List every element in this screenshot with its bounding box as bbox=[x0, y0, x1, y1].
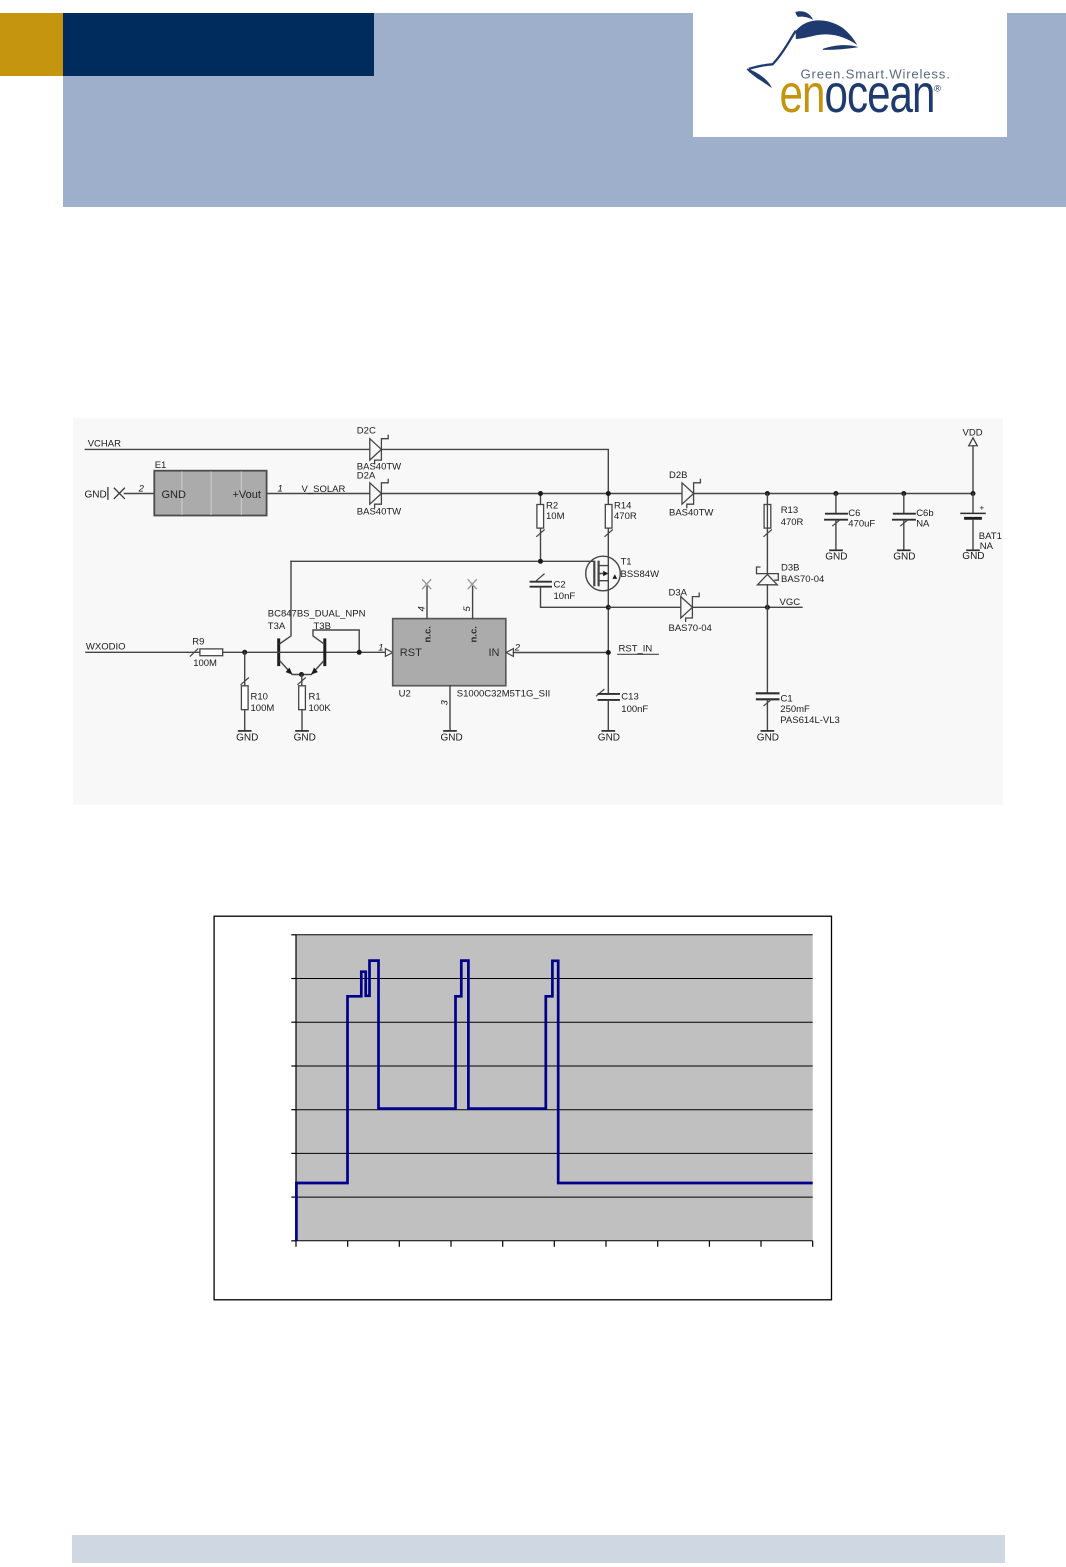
svg-text:GND: GND bbox=[85, 490, 107, 501]
gridlines bbox=[296, 935, 813, 1241]
node RST_IN junction bbox=[606, 605, 611, 610]
svg-text:BAS40TW: BAS40TW bbox=[357, 507, 401, 518]
svg-text:E1: E1 bbox=[155, 460, 167, 471]
svg-text:1: 1 bbox=[378, 642, 383, 653]
wire V_SOLAR rail bbox=[381, 493, 682, 495]
node emitter junction bbox=[299, 672, 304, 677]
svg-text:D3A: D3A bbox=[669, 588, 688, 599]
ground below C13 bbox=[598, 731, 620, 744]
pin 4 no-connect bbox=[416, 580, 430, 619]
svg-text:GND: GND bbox=[294, 732, 316, 743]
svg-text:WXODIO: WXODIO bbox=[86, 642, 126, 653]
svg-text:4: 4 bbox=[416, 606, 427, 611]
wire base between transistors bbox=[278, 651, 386, 653]
header navy block bbox=[63, 13, 374, 76]
svg-text:C13: C13 bbox=[621, 692, 638, 703]
svg-text:n.c.: n.c. bbox=[468, 626, 479, 642]
svg-text:D2B: D2B bbox=[669, 470, 687, 481]
svg-text:BAS70-04: BAS70-04 bbox=[669, 623, 712, 634]
svg-text:+Vout: +Vout bbox=[233, 489, 261, 501]
svg-text:BAS40TW: BAS40TW bbox=[669, 507, 713, 518]
node VDD bbox=[963, 428, 983, 494]
svg-text:1: 1 bbox=[278, 484, 283, 495]
svg-text:GND: GND bbox=[962, 551, 984, 562]
plot area bbox=[296, 935, 813, 1241]
wire to D3A bbox=[608, 606, 681, 608]
svg-text:D3B: D3B bbox=[781, 562, 799, 573]
svg-text:C2: C2 bbox=[554, 580, 566, 591]
resistor R14 bbox=[605, 494, 637, 694]
CHART bbox=[213, 915, 833, 1301]
enocean logo bbox=[693, 0, 1007, 137]
node T3B collector junction bbox=[357, 650, 362, 655]
svg-text:BAS70-04: BAS70-04 bbox=[781, 574, 824, 585]
svg-text:100M: 100M bbox=[193, 658, 217, 669]
resistor R10 bbox=[241, 652, 274, 730]
battery BAT1 bbox=[961, 494, 1002, 553]
svg-text:IN: IN bbox=[489, 647, 500, 659]
svg-text:2: 2 bbox=[138, 484, 145, 495]
svg-text:GND: GND bbox=[441, 732, 463, 743]
svg-text:GND: GND bbox=[825, 552, 847, 563]
svg-text:D2A: D2A bbox=[357, 471, 376, 482]
svg-text:10M: 10M bbox=[546, 511, 565, 522]
svg-text:R1: R1 bbox=[309, 692, 321, 703]
chart frame bbox=[214, 916, 831, 1300]
svg-text:100M: 100M bbox=[251, 703, 275, 714]
svg-text:T1: T1 bbox=[621, 557, 632, 568]
svg-text:3: 3 bbox=[439, 700, 450, 706]
svg-text:n.c.: n.c. bbox=[423, 626, 434, 642]
svg-text:RST_IN: RST_IN bbox=[619, 644, 653, 655]
capacitor C2 bbox=[531, 574, 609, 607]
svg-text:BSS84W: BSS84W bbox=[621, 569, 660, 580]
capacitor C6b bbox=[893, 494, 934, 550]
svg-text:®: ® bbox=[934, 84, 941, 95]
svg-text:R10: R10 bbox=[251, 692, 268, 703]
header gold block bbox=[0, 13, 63, 76]
diode D2B bbox=[669, 470, 713, 519]
node WXODIO bbox=[86, 642, 200, 653]
capacitor C13 bbox=[597, 689, 649, 730]
transistor T3B bbox=[302, 621, 360, 675]
x axis ticks bbox=[296, 1241, 813, 1247]
svg-text:470R: 470R bbox=[781, 517, 804, 528]
pin 1 arrow into U2 bbox=[378, 642, 392, 656]
pin 3 to ground bbox=[439, 686, 450, 731]
node VGC bbox=[692, 597, 802, 610]
junction dots on V_SOLAR rail bbox=[538, 491, 976, 496]
svg-text:100K: 100K bbox=[309, 703, 332, 714]
IC U2 bbox=[393, 619, 551, 700]
dolphin pectoral fin swoosh bbox=[823, 45, 858, 50]
svg-text:BAT1: BAT1 bbox=[979, 531, 1002, 542]
SCHEMATIC bbox=[73, 418, 1003, 805]
resistor R1 bbox=[298, 675, 332, 731]
ground below C6b bbox=[893, 550, 915, 562]
resistor R9 bbox=[190, 636, 277, 669]
node V_SOLAR bbox=[267, 484, 370, 495]
capacitor C1 bbox=[757, 607, 840, 730]
footer band bbox=[72, 1535, 1005, 1563]
dolphin head and neck line bbox=[749, 31, 796, 69]
svg-text:GND: GND bbox=[757, 732, 779, 743]
capacitor C6 bbox=[825, 494, 875, 550]
svg-text:GND: GND bbox=[893, 552, 915, 563]
logo white box bbox=[693, 8, 1007, 137]
svg-text:D2C: D2C bbox=[357, 425, 376, 436]
diode D2A bbox=[357, 471, 401, 518]
pin 2 arrow and wire bbox=[506, 642, 608, 656]
svg-text:T3A: T3A bbox=[268, 621, 286, 632]
resistor R13 bbox=[764, 494, 804, 574]
svg-text:GND: GND bbox=[236, 732, 258, 743]
svg-text:S1000C32M5T1G_SII: S1000C32M5T1G_SII bbox=[457, 689, 550, 700]
svg-text:GND: GND bbox=[162, 489, 187, 501]
wire bbox=[124, 493, 154, 495]
ground below C1 bbox=[757, 731, 779, 744]
svg-text:GND: GND bbox=[598, 732, 620, 743]
diode D3B bbox=[757, 562, 825, 607]
transistor T3A bbox=[268, 561, 366, 674]
header light blue band bbox=[63, 13, 1066, 207]
logo wordmark bbox=[780, 64, 935, 124]
svg-text:RST: RST bbox=[400, 647, 422, 659]
node base junction bbox=[242, 650, 247, 655]
svg-text:VDD: VDD bbox=[963, 428, 983, 439]
node GND flag at E1 input bbox=[85, 484, 155, 501]
svg-text:250mF: 250mF bbox=[780, 704, 810, 715]
diode D2C bbox=[357, 425, 401, 472]
svg-text:VCHAR: VCHAR bbox=[88, 439, 121, 450]
svg-text:R9: R9 bbox=[192, 636, 204, 647]
ground below BAT1 bbox=[962, 550, 984, 562]
ground below R10 bbox=[236, 731, 258, 744]
svg-text:5: 5 bbox=[462, 606, 473, 612]
svg-text:C6: C6 bbox=[848, 508, 860, 519]
svg-text:enocean: enocean bbox=[780, 64, 935, 124]
wire bbox=[85, 449, 608, 493]
svg-text:VGC: VGC bbox=[780, 597, 801, 608]
y axis with ticks bbox=[291, 935, 296, 1241]
dolphin tail fluke bbox=[795, 11, 813, 20]
svg-text:U2: U2 bbox=[399, 689, 411, 700]
svg-text:BC847BS_DUAL_NPN: BC847BS_DUAL_NPN bbox=[268, 609, 366, 620]
svg-text:2: 2 bbox=[514, 642, 521, 653]
pin 5 no-connect bbox=[462, 580, 476, 619]
svg-text:V_SOLAR: V_SOLAR bbox=[302, 484, 346, 495]
dolphin jaw wedge bbox=[747, 69, 773, 89]
ground below C6 bbox=[825, 550, 847, 562]
solar cell E1 bbox=[154, 460, 266, 516]
diode D3A bbox=[669, 588, 712, 634]
svg-text:+: + bbox=[980, 504, 985, 513]
svg-text:C6b: C6b bbox=[916, 508, 933, 519]
wire gate line bbox=[291, 560, 594, 562]
wire rail to battery bbox=[694, 493, 973, 495]
waveform trace bbox=[296, 961, 812, 1241]
svg-text:100nF: 100nF bbox=[621, 704, 648, 715]
dolphin back body bbox=[796, 20, 858, 45]
node gate junction bbox=[538, 559, 543, 564]
node RST_IN bbox=[606, 644, 659, 655]
svg-text:R13: R13 bbox=[781, 505, 798, 516]
svg-text:470R: 470R bbox=[614, 511, 637, 522]
node VCHAR bbox=[85, 439, 608, 494]
ground below R1 bbox=[294, 731, 316, 744]
svg-text:NA: NA bbox=[916, 519, 930, 530]
transistor T1 bbox=[586, 556, 659, 591]
svg-text:PAS614L-VL3: PAS614L-VL3 bbox=[780, 715, 840, 726]
svg-text:470uF: 470uF bbox=[848, 519, 875, 530]
resistor R2 bbox=[537, 494, 565, 562]
svg-text:10nF: 10nF bbox=[554, 591, 576, 602]
ground below pin 3 bbox=[441, 731, 463, 744]
